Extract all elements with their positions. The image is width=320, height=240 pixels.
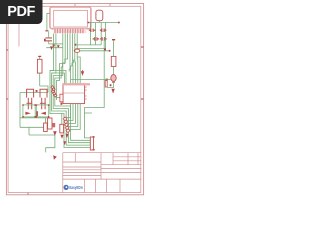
net flag stem xyxy=(82,70,84,71)
MCU right pin ticks xyxy=(85,87,87,99)
wire maze ring 2 top xyxy=(52,73,65,83)
frame zone tick top2 xyxy=(109,4,111,7)
title block left edge xyxy=(62,153,64,193)
wire long horizontal y79.5 xyxy=(71,79,111,81)
LED D1 cathode mark xyxy=(112,82,114,83)
wire B path xyxy=(46,135,55,152)
sheet inner frame xyxy=(8,6,141,192)
wire maze ring 1 top xyxy=(50,71,66,84)
wire pin feed band 4 xyxy=(76,33,79,83)
fuse F1 ellipse xyxy=(74,49,79,52)
wire horizontal y43.9 xyxy=(49,43,63,45)
arrow right pointing xyxy=(25,112,30,115)
arrow left pointing xyxy=(41,112,46,115)
fuse F1 dot xyxy=(74,50,75,52)
wire bottom loop xyxy=(20,117,49,127)
capacitor C5 pad dot xyxy=(61,103,63,105)
EasyEDA logo icon xyxy=(64,185,69,190)
wire display left stub xyxy=(47,13,50,30)
wire pin feed band 2 xyxy=(71,33,74,83)
PDF badge xyxy=(0,0,43,24)
crystal X1 lead xyxy=(98,21,100,23)
title block row line left xyxy=(63,166,101,168)
small component below LED xyxy=(105,81,107,87)
pin tick right xyxy=(118,22,120,24)
title block bottom row divider xyxy=(84,179,86,193)
net flag arrow near bus right xyxy=(81,71,84,76)
connector J2 pin nub bottom xyxy=(93,149,95,151)
unknown pink net under badge xyxy=(18,24,20,47)
junction tick on y79.5 xyxy=(106,79,108,81)
title block row line right xyxy=(101,168,141,170)
MCU chip U2 xyxy=(63,84,85,104)
wire crystal top xyxy=(89,22,119,24)
switch S1 body xyxy=(23,105,35,117)
relay K1 contact bars xyxy=(27,98,29,110)
diode chain stack D2-D6 xyxy=(63,117,70,133)
frame zone tick right2 xyxy=(141,98,144,100)
capacitor C2 plates xyxy=(100,29,107,33)
resistor R1 left xyxy=(37,56,42,73)
wire maze ring 2 xyxy=(52,33,91,145)
EasyEDA logo icon hole xyxy=(66,186,68,188)
title block top edge xyxy=(63,152,142,154)
title block column divider xyxy=(112,153,114,165)
LED D1 xyxy=(111,75,116,82)
wire rail y92.5 xyxy=(20,92,48,94)
wire right loop xyxy=(85,113,93,138)
left driver circuit wires xyxy=(20,73,55,152)
title block row line left xyxy=(63,174,101,176)
wire pin feed band 1 xyxy=(69,33,72,83)
net flag arrow below C8 xyxy=(60,135,63,139)
wire maze ring 3 xyxy=(53,33,90,142)
wire stub to C5 xyxy=(56,97,60,99)
wire mcu bottom 2 xyxy=(67,104,73,121)
junction dot between Q1 Q2 xyxy=(36,90,38,92)
pin tick R1 top xyxy=(38,56,41,57)
wire resistor bottom xyxy=(113,66,115,74)
wire pin feed band 3 xyxy=(74,33,77,83)
wire below LED xyxy=(107,82,113,88)
wire mcu bottom 5 xyxy=(68,104,80,130)
resistor R1 body xyxy=(37,59,42,73)
center mark xyxy=(36,111,38,116)
junction dot band xyxy=(75,44,77,46)
MCU bottom wires to diamond stack xyxy=(66,104,92,138)
frame zone tick bottom xyxy=(27,193,29,195)
resistor R2 vertical right xyxy=(111,56,116,66)
wire below caps long xyxy=(85,38,105,113)
wire to cap xyxy=(48,31,50,37)
switch S1 corner pins xyxy=(22,104,36,117)
net flag arrow on bus 2 xyxy=(57,45,60,48)
connector J2 pin nub top xyxy=(93,136,95,138)
net flag arrow below LED xyxy=(111,89,114,94)
title block row line left xyxy=(63,161,101,163)
MCU inner divider xyxy=(63,92,84,94)
wire below cap xyxy=(48,41,50,44)
pin tick xyxy=(45,30,48,31)
title block row line left xyxy=(63,172,101,174)
crystal X1 xyxy=(96,10,103,21)
frame zone tick top xyxy=(74,4,76,7)
display module U1 inner window xyxy=(54,10,88,27)
wire staircase texture xyxy=(69,60,75,72)
display module U1 outer body xyxy=(50,7,91,29)
pin tick end xyxy=(109,50,111,52)
optocoupler Q2 coil xyxy=(40,89,47,97)
wire maze ring 5 xyxy=(56,33,67,100)
switch S2 corner pins xyxy=(36,104,50,117)
wire resistor top xyxy=(113,40,115,56)
title block row line right xyxy=(101,164,141,166)
junction dot xyxy=(110,84,112,86)
frame zone tick right xyxy=(141,46,144,48)
svg-text:PDF: PDF xyxy=(7,4,35,20)
title block row line right xyxy=(113,160,141,162)
net flag arrow wireB end xyxy=(53,155,57,160)
wire R1 bottom to rail xyxy=(39,73,41,86)
title block xyxy=(63,153,142,193)
frame zone tick left xyxy=(6,49,8,51)
wire horizontal y52.9 xyxy=(80,50,109,52)
title block column divider xyxy=(127,153,129,165)
wire mcu bottom 3 xyxy=(67,104,75,124)
wire cap drop 2 xyxy=(95,23,97,45)
title block bottom row divider xyxy=(106,179,108,193)
wire rail y86 xyxy=(40,86,48,93)
capacitor V1 vertical xyxy=(44,123,48,132)
wire left rail xyxy=(19,93,21,128)
svg-text:EasyEDA: EasyEDA xyxy=(69,185,83,190)
net flag arrow below stack xyxy=(65,134,68,138)
junction tick xyxy=(104,48,106,50)
capacitor C1 plates xyxy=(89,29,96,33)
MCU top pin band xyxy=(62,83,90,85)
sheet outer frame xyxy=(6,4,143,195)
connector CN1 flag xyxy=(52,123,55,127)
net flag arrow wireA end xyxy=(53,131,57,135)
wire mcu bottom 1 xyxy=(66,104,70,118)
title block row line right xyxy=(101,172,141,174)
maze nested wires around MCU left xyxy=(50,33,90,147)
switch S2 body xyxy=(36,105,48,117)
wire maze ring 3 top xyxy=(62,75,64,77)
wire horizontal y47.7 xyxy=(46,47,63,49)
wire rail y117.8 xyxy=(20,117,49,119)
relay K2 contact bars xyxy=(41,98,43,110)
title block row line full xyxy=(63,178,142,180)
capacitor C6 plates xyxy=(45,37,52,38)
connector J2 right xyxy=(90,137,93,150)
title block column divider xyxy=(137,153,139,165)
net flag small above connector bus xyxy=(63,141,66,145)
wire cap drop 1 xyxy=(89,23,91,45)
wire R1 top xyxy=(39,57,41,59)
title block column divider xyxy=(100,153,102,179)
capacitor C3 plates xyxy=(93,37,100,41)
wire horizontal y44.9 xyxy=(75,44,101,46)
wire C8 stub xyxy=(61,114,63,125)
display module U1 pin strip xyxy=(54,29,87,34)
wire V1 stub xyxy=(44,118,46,123)
frame zone tick left2 xyxy=(6,98,8,100)
page background xyxy=(0,0,149,198)
title block bottom row divider xyxy=(95,179,97,193)
capacitor C6 left of display xyxy=(44,13,63,50)
capacitor C8 bottom middle xyxy=(60,124,64,133)
capacitor C4 plates xyxy=(100,37,107,41)
optocoupler Q1 coil xyxy=(27,89,34,97)
wire band 5 xyxy=(77,57,80,83)
title block row line right xyxy=(113,156,141,158)
title block column divider xyxy=(74,153,76,162)
wire cap drop 3 xyxy=(100,23,102,45)
wire maze ring 4 xyxy=(55,33,91,140)
capacitor C6 dot xyxy=(44,39,46,42)
diode chain D7-D11 small diamonds xyxy=(51,86,57,97)
title block row line left xyxy=(63,169,101,171)
wire drop to A xyxy=(28,127,30,135)
wire horizontal y49 xyxy=(75,48,105,50)
display module U1 pin ticks xyxy=(55,29,83,34)
pin tick resistor top xyxy=(112,39,115,40)
wire cap drop 4 xyxy=(104,23,106,49)
pin tick left xyxy=(88,22,90,24)
connector CN1 xyxy=(48,118,52,129)
wire maze ring 1 xyxy=(50,33,90,147)
net flag arrow xyxy=(50,46,53,50)
title block bottom row divider xyxy=(119,179,121,193)
wire A horizontal xyxy=(29,134,55,136)
net flag arrow on bus 1 xyxy=(52,45,55,48)
wire mcu bottom 4 xyxy=(68,104,78,127)
capacitor C5 on MCU left xyxy=(60,94,63,102)
bus wires from display to MCU xyxy=(69,33,80,83)
